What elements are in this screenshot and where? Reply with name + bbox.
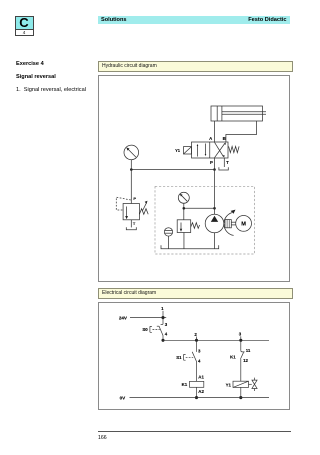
svg-text:24V: 24V [119, 315, 128, 320]
wire branch down to relief valve [130, 170, 132, 204]
cylinder 1A (double acting) [211, 106, 266, 121]
wire P branch to gauge line [131, 169, 214, 171]
distribution rail [163, 339, 269, 341]
svg-text:T: T [226, 160, 229, 165]
system relief valve 0V1 [177, 220, 199, 233]
pushbutton S0 (NC contact) [142, 318, 167, 341]
svg-text:K1: K1 [182, 382, 188, 387]
svg-text:12: 12 [243, 358, 248, 363]
rotation direction arrow [224, 210, 236, 236]
svg-text:S0: S0 [142, 327, 148, 332]
main pressure line valve P to pump [214, 170, 216, 215]
relay contact K1 (NO) [230, 340, 251, 381]
wire gauge branch to pump line [184, 207, 215, 209]
relay coil K1 [182, 381, 204, 387]
electric motor 0M1 [236, 216, 252, 232]
svg-text:S1: S1 [176, 355, 182, 360]
junction P branch [213, 168, 216, 171]
solenoid Y1 [184, 147, 192, 154]
svg-text:Y1: Y1 [226, 383, 232, 388]
pressure gauge 0Z1 [178, 192, 189, 203]
wire gauge to branch [130, 160, 132, 170]
wire cylinder piston side to valve A [214, 121, 216, 142]
svg-text:1: 1 [161, 306, 164, 311]
header bar [98, 16, 290, 24]
chapter tab C [15, 16, 34, 37]
return spring of valve [229, 146, 240, 152]
current path marker 2 [194, 332, 197, 340]
solenoid coil Y1 [226, 381, 249, 387]
junction 0V / path 3 [239, 396, 242, 399]
24V supply rail [130, 317, 166, 319]
svg-text:B: B [223, 136, 226, 141]
wire level indicator to tank [168, 236, 170, 249]
svg-text:T: T [133, 221, 136, 226]
svg-text:4: 4 [198, 358, 201, 363]
junction rail / path 2 [195, 339, 198, 342]
pressure relief valve 1V1 [123, 201, 148, 220]
valve 1V (4/2-way, solenoid/spring) [192, 142, 229, 158]
junction at pump line [213, 207, 216, 210]
page number [98, 435, 107, 441]
wire valve T down [223, 158, 225, 167]
wire coil Y1 to 0V [240, 387, 242, 397]
svg-text:Y1: Y1 [175, 148, 181, 153]
svg-text:M: M [241, 221, 246, 227]
wire cylinder rod side to valve B [226, 121, 257, 142]
svg-text:A: A [209, 136, 212, 141]
footer rule [98, 431, 291, 432]
tank of power unit [161, 245, 219, 248]
svg-text:3: 3 [239, 332, 242, 337]
svg-text:A1: A1 [198, 374, 204, 379]
svg-text:4: 4 [165, 332, 168, 337]
oil level indicator [164, 228, 172, 236]
left column headings [16, 61, 44, 67]
wire coil K1 to 0V [196, 387, 198, 397]
wire valve P down [214, 158, 216, 170]
drive shaft with coupling [224, 220, 236, 228]
tank at relief valve [126, 227, 136, 230]
electrical diagram box [98, 302, 290, 411]
tank at valve T [219, 167, 228, 170]
current path marker 3 [239, 332, 242, 341]
svg-text:3: 3 [198, 349, 201, 354]
hydraulic diagram box [98, 75, 290, 282]
wire relief valve to tank [130, 220, 132, 228]
svg-text:A2: A2 [198, 389, 204, 394]
svg-text:11: 11 [246, 348, 251, 353]
pump 0P1 [205, 214, 224, 233]
wire relief valve 0V1 to tank [183, 233, 185, 249]
junction at gauge branch left [183, 207, 186, 210]
0V supply rail [130, 397, 270, 399]
svg-text:K1: K1 [230, 354, 236, 359]
hydraulic valve symbol at Y1 [249, 378, 258, 391]
electrical section label [98, 288, 293, 299]
pressure gauge 1Z1 [124, 145, 139, 160]
junction path1 bottom [161, 339, 164, 342]
wire pump suction to tank [214, 233, 216, 249]
svg-text:P: P [133, 196, 136, 201]
junction gauge line [130, 168, 133, 171]
svg-text:0V: 0V [120, 395, 127, 400]
svg-text:2: 2 [194, 332, 197, 337]
junction 0V / path 2 [195, 396, 198, 399]
junction 24V rail / path 1 [161, 316, 164, 319]
power unit enclosure (dashed) [155, 186, 254, 254]
current path marker 1 [161, 306, 164, 318]
hydraulic section label [98, 61, 293, 72]
svg-text:P: P [210, 160, 213, 165]
pushbutton S1 (NO contact) [176, 340, 201, 381]
svg-text:3: 3 [165, 322, 168, 327]
pilot line (dashed) of relief valve [116, 197, 131, 210]
wire gauge down to relief valve 0V1 [183, 203, 185, 220]
junction rail / path 3 [239, 339, 242, 342]
